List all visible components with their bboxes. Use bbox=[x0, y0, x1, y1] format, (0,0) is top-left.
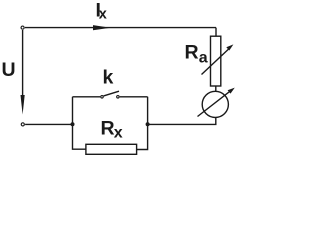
voltage arrow U (shaft) bbox=[22, 30, 24, 98]
svg-text:x: x bbox=[114, 125, 123, 142]
voltage arrow U (head) bbox=[21, 95, 25, 115]
wire top rail bbox=[25, 27, 216, 29]
switch k contact right bbox=[117, 96, 120, 99]
wire switch branch right bbox=[120, 96, 148, 98]
junction left bbox=[71, 122, 75, 126]
svg-text:k: k bbox=[103, 67, 114, 89]
wire left branch vertical bbox=[73, 97, 86, 149]
meter pointer arrow (shaft) bbox=[198, 90, 232, 116]
terminal top-left bbox=[21, 26, 24, 29]
wire Ra to meter bbox=[215, 86, 217, 91]
switch k contact left bbox=[101, 96, 104, 99]
switch k blade bbox=[104, 91, 119, 96]
meter P (circle) bbox=[202, 91, 228, 117]
current arrow Ix bbox=[93, 25, 111, 30]
adjustment arrow of Ra (shaft) bbox=[202, 48, 231, 75]
wire bottom rail left bbox=[25, 123, 72, 125]
resistor Ra bbox=[211, 36, 221, 86]
svg-text:U: U bbox=[2, 59, 16, 81]
terminal bottom-left bbox=[21, 123, 24, 126]
wire bottom rail right bbox=[148, 117, 216, 124]
svg-text:x: x bbox=[99, 6, 107, 22]
meter pointer arrow (head) bbox=[228, 88, 235, 94]
wire top right drop bbox=[215, 28, 217, 37]
svg-text:R: R bbox=[185, 42, 199, 64]
wire switch branch left bbox=[73, 96, 101, 98]
svg-text:R: R bbox=[101, 118, 115, 140]
junction right bbox=[146, 122, 150, 126]
svg-text:a: a bbox=[199, 50, 208, 67]
resistor Rx bbox=[86, 144, 137, 154]
wire right branch vertical bbox=[137, 97, 148, 150]
adjustment arrow of Ra (head) bbox=[226, 44, 233, 50]
